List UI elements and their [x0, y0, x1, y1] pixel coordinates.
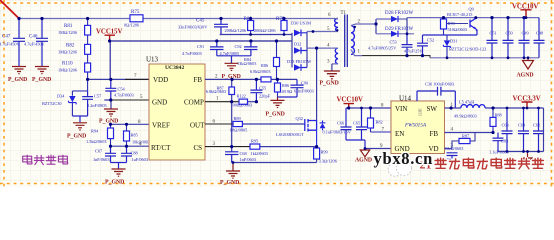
watermark 21世纪电力电子技术: [420, 158, 544, 172]
svg-text:1kΩ/0603: 1kΩ/0603: [251, 151, 268, 156]
ground P_GND under C47: [12, 67, 26, 74]
ground P_GND under D34/C57: [73, 123, 87, 130]
diode D32: [294, 47, 301, 54]
capacitor C55: [250, 79, 262, 101]
wire OUT row: [205, 123, 233, 125]
svg-text:P_GND: P_GND: [220, 180, 239, 186]
wire RT/CT row pin4: [111, 145, 150, 147]
svg-text:C54: C54: [118, 87, 126, 92]
resistor R86: [277, 79, 279, 97]
capacitor C54: [105, 79, 116, 100]
svg-text:1.5kΩ/0603: 1.5kΩ/0603: [86, 139, 107, 144]
svg-text:C88: C88: [131, 151, 138, 156]
svg-text:C53: C53: [390, 40, 397, 45]
svg-text:R89: R89: [234, 116, 241, 121]
svg-text:33nF/0603/630V: 33nF/0603/630V: [178, 24, 208, 29]
capacitor C52: [417, 30, 477, 56]
svg-text:10kΩ/0603: 10kΩ/0603: [132, 139, 151, 144]
wire VCC10V rail top right: [407, 17, 539, 19]
resistor R89: [233, 121, 242, 126]
svg-text:BZT52C12/SOD-123: BZT52C12/SOD-123: [449, 47, 486, 52]
svg-text:BZT52C30: BZT52C30: [42, 101, 62, 106]
svg-text:C62: C62: [533, 122, 540, 127]
svg-text:100kΩ/0603: 100kΩ/0603: [231, 103, 253, 108]
svg-text:LSG03R500GT: LSG03R500GT: [276, 132, 304, 137]
svg-text:L5 47uH: L5 47uH: [459, 100, 474, 105]
svg-text:4.7uF/25V: 4.7uF/25V: [404, 49, 423, 54]
svg-text:1nF/0603: 1nF/0603: [93, 157, 109, 162]
svg-text:4.7uF/450V: 4.7uF/450V: [0, 41, 21, 46]
svg-text:R86: R86: [261, 63, 269, 68]
resistor R85: [126, 124, 128, 146]
diode D30: [291, 33, 293, 68]
resistor R81: [87, 19, 89, 80]
svg-text:R94: R94: [91, 129, 99, 134]
svg-text:200kΩ/1206: 200kΩ/1206: [225, 28, 247, 33]
svg-text:P_GND: P_GND: [266, 112, 285, 118]
regulator U14 FW5015A: [391, 101, 445, 154]
capacitor C58: [447, 153, 458, 159]
svg-text:4.7nF/0603: 4.7nF/0603: [182, 51, 202, 56]
resistor R95: [250, 144, 260, 149]
svg-text:6.8kΩ/0603: 6.8kΩ/0603: [250, 69, 271, 74]
svg-text:RT/CT: RT/CT: [151, 144, 171, 152]
svg-text:C50: C50: [506, 30, 513, 35]
ground AGND mid: [364, 149, 366, 151]
resistor R79: [283, 19, 285, 35]
wire pin4: [307, 47, 332, 49]
svg-text:C90: C90: [301, 81, 308, 86]
svg-text:C91: C91: [197, 44, 204, 49]
capacitor C63: [502, 108, 513, 152]
wire VDD row: [88, 78, 149, 80]
svg-text:R82: R82: [376, 120, 383, 125]
svg-text:FW5015A: FW5015A: [404, 122, 427, 128]
svg-text:R86: R86: [282, 83, 290, 88]
svg-text:1MΩ/1206: 1MΩ/1206: [58, 50, 78, 55]
capacitor C64: [518, 108, 529, 152]
svg-text:C65: C65: [353, 121, 360, 126]
svg-text:3B5T: 3B5T: [418, 108, 422, 117]
svg-text:ybx8.cn: ybx8.cn: [374, 149, 433, 168]
svg-text:C68: C68: [240, 151, 247, 156]
svg-text:4.7nF/0805: 4.7nF/0805: [220, 51, 240, 56]
wire GND row u14: [365, 148, 391, 150]
resistor R82 en: [371, 108, 392, 132]
svg-text:C47: C47: [2, 35, 11, 40]
transistor Q32: [305, 119, 326, 148]
capacitor C68: [225, 152, 238, 163]
svg-text:R88: R88: [495, 112, 502, 117]
svg-text:2.2nF/0805: 2.2nF/0805: [87, 103, 107, 108]
svg-text:D32: D32: [294, 42, 301, 47]
svg-text:COMP: COMP: [184, 99, 204, 107]
wire CS row: [205, 146, 250, 148]
svg-text:C46: C46: [29, 35, 38, 40]
svg-text:1MΩ/1206: 1MΩ/1206: [58, 30, 78, 35]
capacitor C66: [341, 108, 352, 140]
svg-text:AGND: AGND: [355, 158, 372, 164]
capacitor C36: [417, 87, 455, 108]
svg-text:VCC10V: VCC10V: [337, 97, 364, 104]
svg-text:4.7nF/0603: 4.7nF/0603: [114, 93, 134, 98]
resistor R75 series on rail: [130, 15, 143, 22]
svg-text:1uF/0603: 1uF/0603: [132, 157, 148, 162]
svg-text:D30 US1M: D30 US1M: [291, 21, 311, 26]
svg-text:3.3Ω/1206: 3.3Ω/1206: [319, 159, 338, 164]
svg-text:D34: D34: [57, 94, 65, 99]
svg-text:R95: R95: [251, 139, 258, 144]
svg-text:1nF/0603: 1nF/0603: [240, 157, 256, 162]
svg-text:R81: R81: [64, 24, 73, 29]
svg-text:R99: R99: [321, 150, 328, 155]
svg-text:C55: C55: [259, 86, 266, 91]
capacitor C45: [214, 19, 228, 35]
svg-text:FB: FB: [430, 130, 439, 138]
svg-text:220pF: 220pF: [259, 94, 271, 99]
capacitor C91: [210, 41, 224, 56]
capacitor C49: [519, 18, 530, 58]
wire FB row: [205, 78, 297, 80]
resistor R99: [314, 148, 320, 159]
svg-text:C57: C57: [94, 94, 102, 99]
wire VCC15V rail: [110, 41, 292, 79]
transistor Q9: [470, 18, 477, 31]
svg-text:T1: T1: [341, 11, 347, 16]
ground P_GND under C46: [35, 67, 49, 74]
svg-text:UC3842: UC3842: [165, 65, 184, 71]
wire AGND rail: [362, 56, 430, 58]
wire COMP-CS vertical: [231, 79, 233, 151]
capacitor C50: [503, 18, 514, 58]
resistor R78: [443, 18, 445, 35]
svg-text:C67: C67: [95, 149, 103, 154]
svg-text:49.9Ω: 49.9Ω: [282, 89, 293, 94]
svg-text:VIN: VIN: [395, 105, 407, 113]
wire FB row u14: [445, 132, 494, 134]
wire drain vertical: [316, 48, 318, 120]
capacitor C53: [402, 34, 413, 56]
wire VD row: [445, 148, 453, 150]
svg-text:R122: R122: [237, 94, 246, 99]
wire COMP row: [205, 101, 239, 103]
svg-text:C52: C52: [427, 38, 434, 43]
wire VREF row pin8: [111, 123, 150, 125]
svg-text:6.8kΩ/0603: 6.8kΩ/0603: [206, 89, 227, 94]
svg-text:VCC15V: VCC15V: [96, 29, 123, 36]
svg-text:C49: C49: [522, 30, 529, 35]
capacitor C48: [534, 18, 545, 58]
wire pin5: [307, 31, 332, 33]
svg-text:C92: C92: [235, 44, 242, 49]
svg-text:Q32: Q32: [296, 116, 303, 121]
resistor R110: [85, 63, 91, 72]
svg-text:P_GND: P_GND: [105, 180, 124, 186]
svg-text:OUT: OUT: [190, 122, 205, 130]
wire GND row pin5: [104, 99, 149, 101]
op-amp U13 UC3842: [149, 64, 205, 160]
resistor R80: [250, 19, 252, 35]
svg-text:4.7uF/0805/25V: 4.7uF/0805/25V: [368, 45, 397, 50]
svg-text:P_GND: P_GND: [32, 77, 51, 83]
wire HV rail top: [19, 18, 332, 20]
svg-text:P_GND: P_GND: [99, 119, 118, 125]
resistor R94: [110, 124, 112, 146]
wire CS return rail: [232, 162, 317, 164]
capacitor C47: [13, 19, 25, 67]
svg-text:1MΩ/1206: 1MΩ/1206: [58, 68, 78, 73]
resistor R123 series FB: [261, 77, 271, 82]
svg-text:R110: R110: [62, 62, 73, 67]
svg-text:FB: FB: [194, 76, 203, 84]
red diagonal sheet mark: [0, 0, 19, 19]
svg-text:C48: C48: [536, 30, 543, 35]
svg-text:CS: CS: [194, 144, 203, 152]
svg-text:R82: R82: [66, 44, 75, 49]
ground P_GND under C54: [104, 109, 118, 116]
ground P_GND bottom left: [112, 169, 126, 176]
svg-text:VREF: VREF: [152, 122, 170, 130]
ground P_GND under C68: [226, 163, 240, 179]
ground P_GND transformer: [324, 71, 340, 79]
svg-text:C36 100nF/0603: C36 100nF/0603: [425, 82, 454, 87]
wire VIN row: [346, 107, 391, 109]
diode D28: [375, 19, 377, 34]
svg-text:C51: C51: [490, 30, 497, 35]
svg-text:C64: C64: [518, 122, 526, 127]
capacitor C92: [217, 41, 258, 63]
capacitor C67: [105, 146, 116, 162]
svg-text:U14: U14: [399, 95, 412, 103]
svg-text:EN: EN: [395, 130, 404, 138]
zener D31: [446, 35, 448, 58]
diode D29: [376, 33, 414, 35]
zener D34: [72, 79, 87, 116]
capacitor C83: [493, 133, 504, 152]
svg-text:D28 FR102W: D28 FR102W: [385, 11, 413, 16]
capacitor C90: [278, 79, 304, 97]
node label 辅助供电: [23, 155, 68, 164]
svg-text:D31: D31: [450, 39, 457, 44]
svg-text:Q9: Q9: [469, 7, 474, 12]
svg-text:68Ω/0805: 68Ω/0805: [230, 128, 247, 133]
capacitor C46: [36, 19, 48, 67]
svg-text:D33 FR107W: D33 FR107W: [287, 59, 312, 64]
svg-text:C63: C63: [502, 122, 509, 127]
svg-text:0.1uF/0603/16V: 0.1uF/0603/16V: [323, 129, 352, 134]
svg-text:C45: C45: [196, 18, 205, 23]
wire clamp bar: [220, 34, 292, 36]
resistor R87: [452, 133, 475, 149]
svg-text:0Ω/1206: 0Ω/1206: [124, 23, 140, 28]
svg-text:13kΩ/0603: 13kΩ/0603: [237, 61, 256, 66]
capacitor C51: [487, 18, 498, 58]
inductor L5: [445, 107, 544, 109]
resistor R82: [85, 44, 91, 54]
wire bottom right rail: [498, 108, 544, 152]
svg-text:P_GND: P_GND: [320, 81, 339, 87]
capacitor C62: [533, 108, 544, 152]
resistor R88: [492, 108, 494, 133]
wire diode cathodes: [306, 32, 308, 68]
sheet border dashed: [0, 0, 554, 187]
svg-text:P_GND: P_GND: [67, 134, 86, 140]
ground P_GND under R86/C90: [271, 97, 285, 108]
resistor R84: [276, 41, 278, 79]
resistor R122: [239, 99, 248, 104]
diode D33: [294, 64, 301, 71]
svg-text:49.9kΩ/0603: 49.9kΩ/0603: [454, 113, 477, 118]
svg-text:6.3nF/0603: 6.3nF/0603: [294, 89, 314, 94]
capacitor C65: [346, 108, 367, 149]
wire pin3 to gnd: [331, 64, 333, 71]
svg-text:200kΩ/1206: 200kΩ/1206: [254, 28, 276, 33]
svg-text:R75: R75: [131, 10, 140, 15]
svg-text:4.7uF/450V: 4.7uF/450V: [24, 41, 46, 46]
svg-text:VDD: VDD: [153, 76, 168, 84]
ground AGND bottom right: [527, 152, 529, 159]
svg-text:510Ω/0603: 510Ω/0603: [448, 27, 467, 32]
svg-text:D29 FR102W: D29 FR102W: [385, 27, 413, 32]
watermark logo cloud: [388, 160, 411, 176]
svg-text:R85: R85: [131, 133, 138, 138]
svg-text:C66: C66: [337, 121, 345, 126]
svg-text:SW: SW: [427, 105, 438, 113]
svg-text:AGND: AGND: [517, 73, 534, 79]
wire D29 up: [406, 18, 408, 34]
capacitor C88: [111, 146, 133, 168]
svg-text:P_GND: P_GND: [8, 77, 27, 83]
ground AGND top right: [527, 58, 529, 61]
svg-text:R87: R87: [462, 133, 470, 138]
ground P_GND under C91/C92: [225, 63, 239, 70]
svg-text:GND: GND: [152, 99, 167, 107]
capacitor C57: [72, 91, 93, 122]
svg-text:U13: U13: [146, 56, 159, 64]
